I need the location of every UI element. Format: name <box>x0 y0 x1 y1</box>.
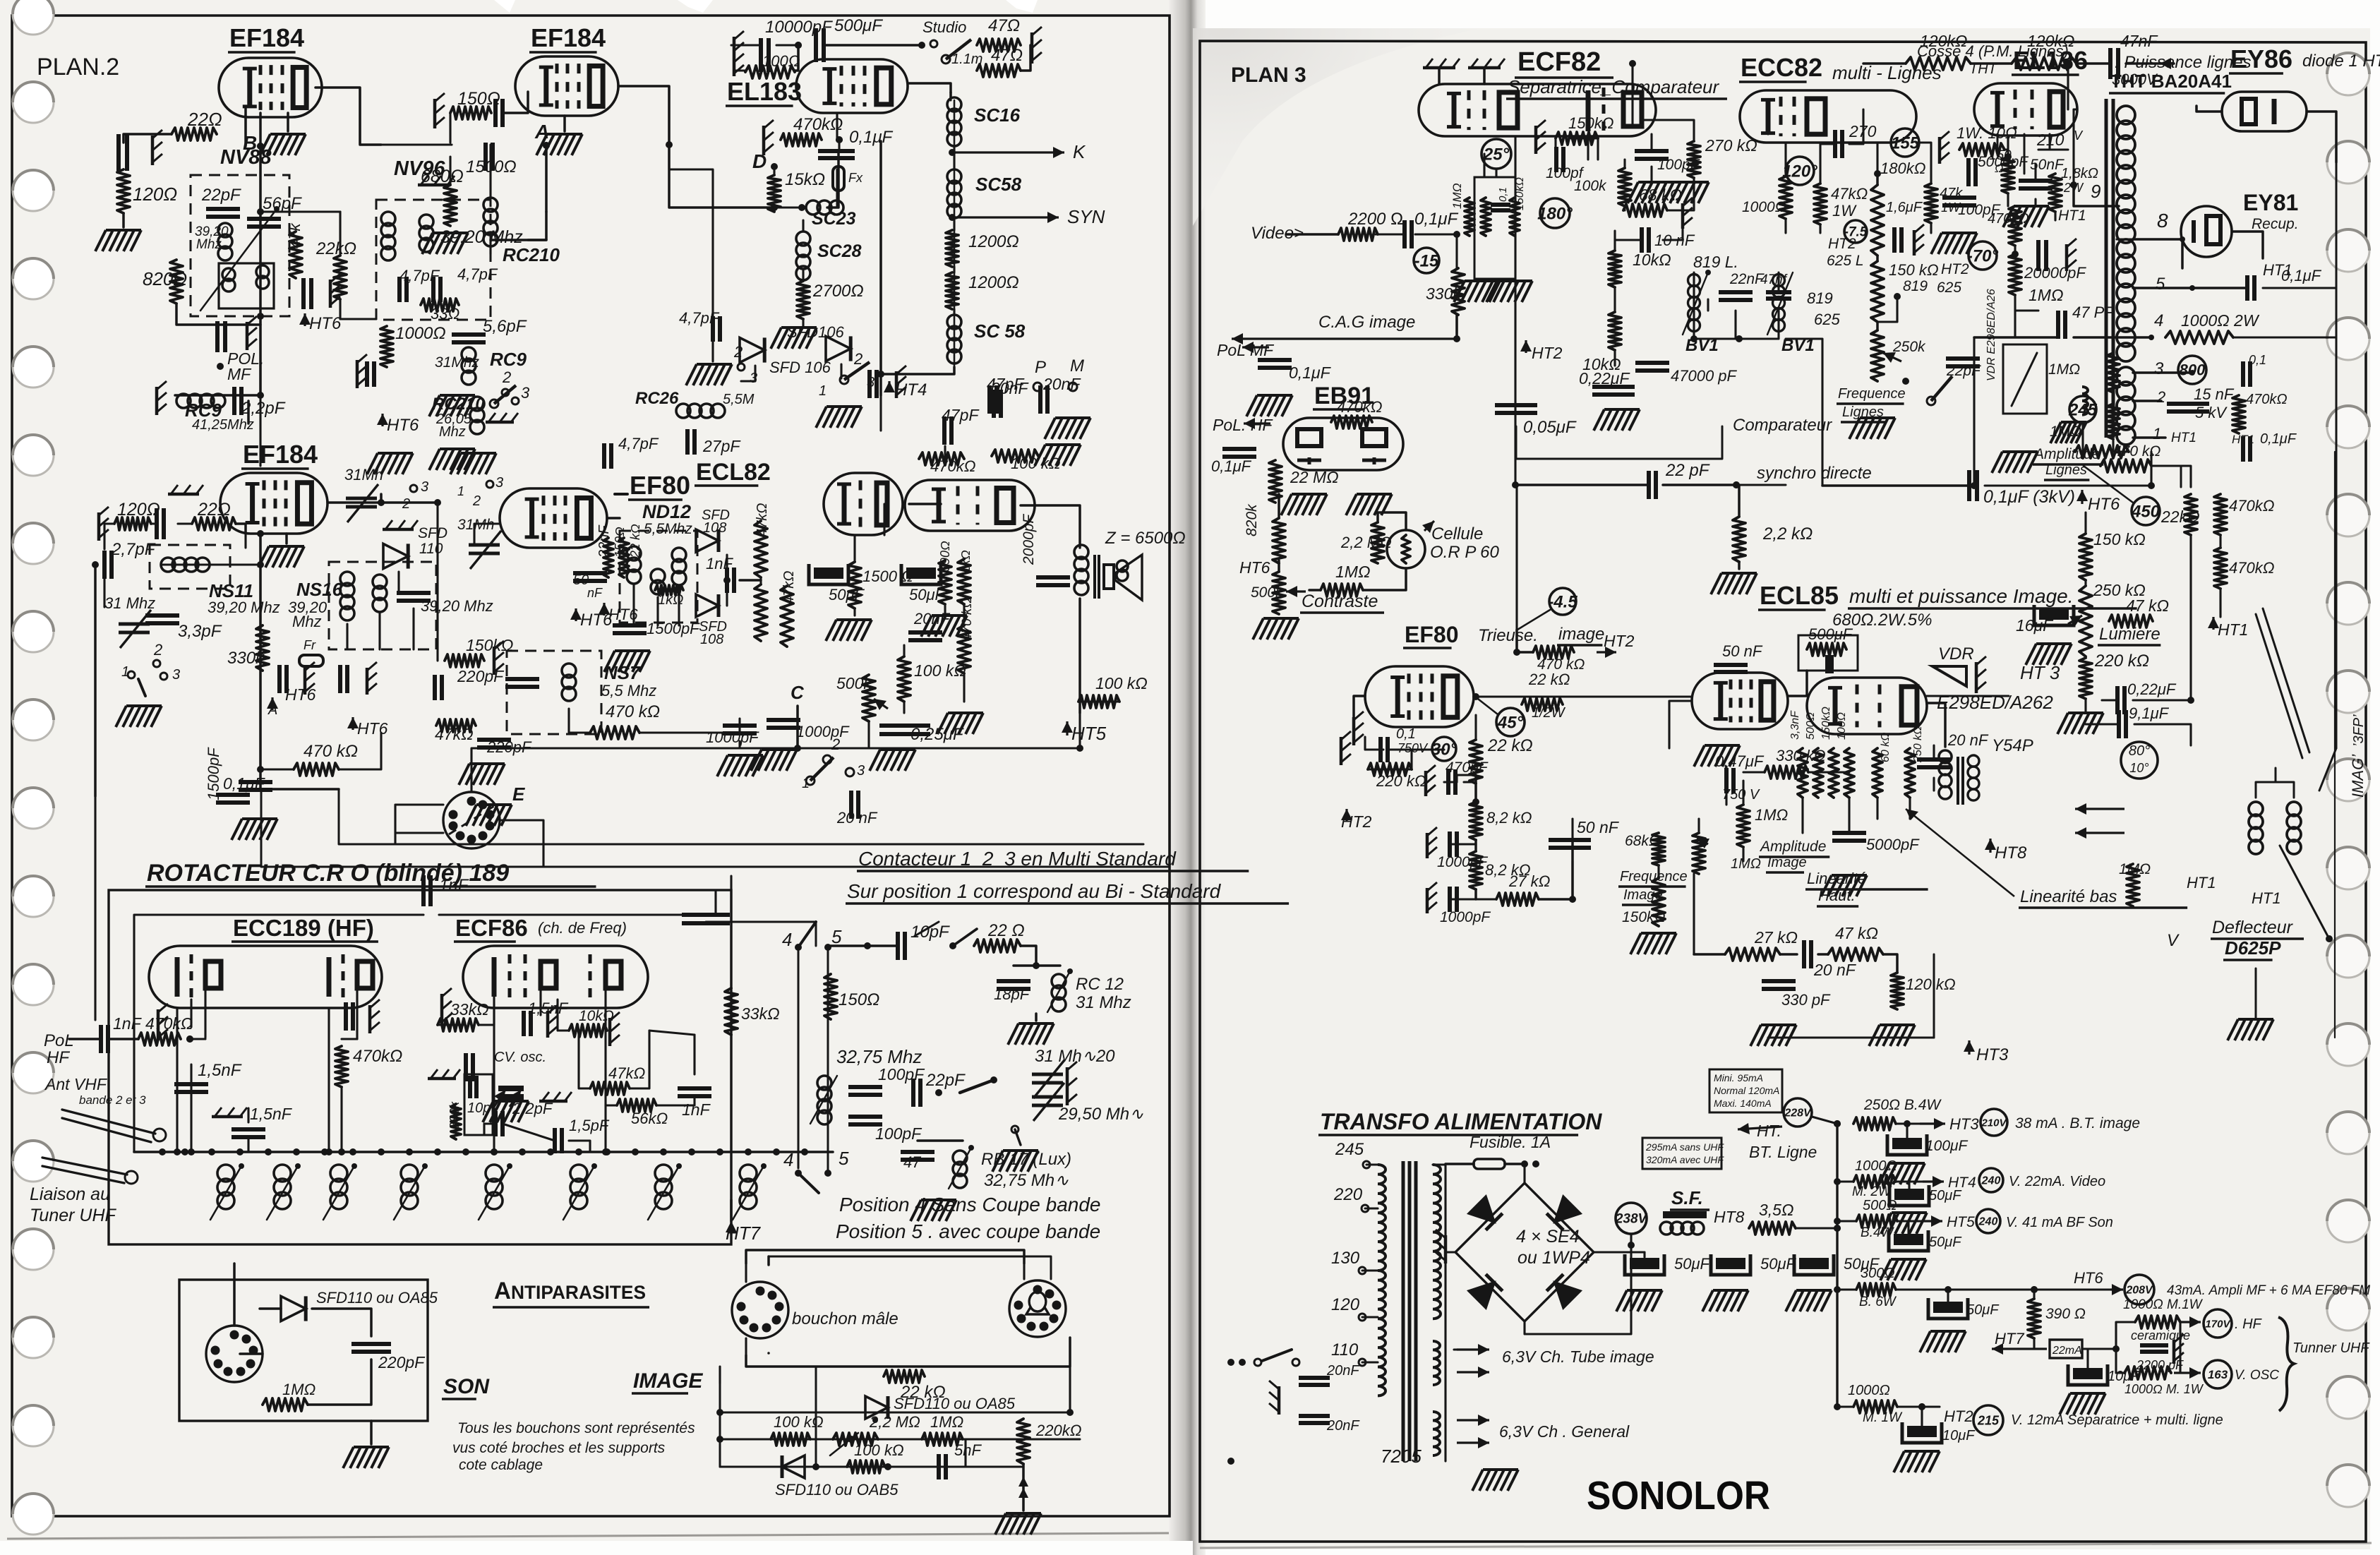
svg-text:20000pF: 20000pF <box>2024 264 2086 282</box>
res 27k mid <box>1725 928 1798 961</box>
wire run 223 <box>1571 819 1573 840</box>
svg-text:22nF: 22nF <box>1729 271 1765 287</box>
coil SC23 <box>806 200 856 229</box>
wire run 156 <box>1613 350 1616 366</box>
ground rc210 b <box>367 453 413 474</box>
res 1500 v <box>848 562 913 608</box>
svg-text:Lignes: Lignes <box>2045 462 2087 478</box>
wire defl down <box>2255 853 2256 1019</box>
wire run 143 <box>1495 169 1497 177</box>
res 60k rot <box>1873 733 1892 798</box>
res 2200 <box>1338 210 1404 241</box>
cap 22nF bv1 <box>1719 271 1765 300</box>
wire run 57 <box>412 608 414 649</box>
wire synchro <box>1515 484 1786 486</box>
hatch v8b <box>428 1069 460 1079</box>
circle 450 <box>2084 466 2160 525</box>
wire run 5 <box>244 114 246 134</box>
wire socket box <box>94 568 97 796</box>
coil NS7 <box>562 664 576 701</box>
tube V1 EF184 envelope <box>219 58 322 117</box>
cap 47nF top <box>2110 32 2158 88</box>
junction 2 <box>257 208 264 215</box>
wire run 13 <box>449 113 451 143</box>
svg-text:470kΩ: 470kΩ <box>2246 392 2288 407</box>
svg-text:D: D <box>752 150 767 172</box>
svg-text:SON: SON <box>443 1375 490 1398</box>
note bouchons 1 <box>457 1420 695 1436</box>
wire run 4 <box>340 299 376 319</box>
wire run 232 <box>1801 798 1803 833</box>
cap 1000pF a <box>706 726 759 746</box>
svg-text:50μF: 50μF <box>1966 1302 2000 1318</box>
res 470k d <box>590 726 639 739</box>
svg-text:SFD 106: SFD 106 <box>769 359 831 376</box>
row1 elcap <box>1879 1124 1969 1184</box>
wire run 115 <box>656 1095 695 1105</box>
switch lever 45 b <box>798 1173 819 1193</box>
wire b to nv96 <box>260 146 340 256</box>
wire run 246 <box>2179 1322 2181 1373</box>
label 63V b <box>1457 1415 1630 1448</box>
box 295mA <box>1642 1138 1724 1169</box>
resistor 150ohm <box>450 89 500 119</box>
cap 50nF p3 <box>1549 818 1620 848</box>
label Liaison <box>30 1184 117 1225</box>
wire 22mA down <box>2116 1349 2124 1373</box>
wire mid row <box>1694 954 1897 973</box>
coil nd12 a <box>627 546 641 584</box>
wire fx down <box>827 151 839 208</box>
wire run 103 <box>190 1064 192 1152</box>
wire run 75 <box>796 706 798 748</box>
wire run 192 <box>2112 392 2114 404</box>
wire run 161 <box>1767 117 1769 134</box>
wire v4 row <box>381 501 438 504</box>
wire run 218 <box>1464 781 1476 783</box>
label HT1 tap8 <box>2181 239 2184 268</box>
wire run 56 <box>378 613 380 649</box>
wire run 234 <box>1876 798 1878 819</box>
wire run 257 <box>1454 1348 1457 1350</box>
wire run 82 <box>944 604 946 616</box>
left page border frame <box>12 16 1170 1516</box>
wire A down <box>545 145 548 212</box>
ground rc12 <box>1008 1014 1054 1045</box>
wire top bus <box>1863 58 2174 69</box>
cap 1,5nF a <box>174 1061 242 1092</box>
wire run 23 <box>731 44 761 46</box>
svg-text:V. 41 mA BF Son: V. 41 mA BF Son <box>2006 1215 2113 1230</box>
svg-text:39,20 Mhz: 39,20 Mhz <box>208 599 280 616</box>
cap 5nF <box>939 1441 982 1479</box>
wire tap8 circle <box>2117 238 2182 240</box>
punch holes right edge <box>2327 53 2369 1507</box>
svg-text:47000 pF: 47000 pF <box>1671 367 1738 385</box>
wire run 93 <box>204 988 206 1038</box>
row2 label <box>2009 1174 2105 1189</box>
cap 20nF d <box>908 610 951 640</box>
elcap 500uF <box>1825 655 1834 673</box>
label HT8 sf <box>1714 1208 1745 1226</box>
svg-text:ECF86: ECF86 <box>455 915 528 941</box>
label 63V a <box>1457 1344 1654 1378</box>
wire run 30 <box>773 208 775 212</box>
svg-text:220 kΩ: 220 kΩ <box>2094 652 2149 671</box>
wire eb91 net <box>1279 494 1406 590</box>
cap 1nF pol <box>101 1014 143 1053</box>
res bank rot <box>1789 707 1854 798</box>
wire run 136 <box>1514 136 1516 485</box>
svg-text:M: M <box>1070 356 1084 376</box>
wire run 230 <box>1743 771 1765 773</box>
svg-text:3,3nF: 3,3nF <box>1789 710 1801 740</box>
label NS11 <box>208 580 280 616</box>
V7 sys2 cathode <box>327 957 332 997</box>
res 220k rot <box>1481 198 1491 236</box>
svg-text:SC 58: SC 58 <box>974 320 1026 342</box>
svg-text:120: 120 <box>1331 1295 1360 1314</box>
svg-text:HT2: HT2 <box>1941 261 1969 277</box>
svg-text:Ant VHF: Ant VHF <box>44 1075 108 1093</box>
wire run 76 <box>738 741 740 748</box>
res 470k el183 <box>781 115 843 146</box>
ground 1000a <box>717 755 763 776</box>
wire run 126 <box>500 820 543 867</box>
junction 19 <box>174 1148 181 1155</box>
wire image left col <box>719 1383 721 1467</box>
svg-text:29,50 Mh∿: 29,50 Mh∿ <box>1058 1105 1143 1124</box>
svg-text:Normal 120mA: Normal 120mA <box>1714 1085 1779 1096</box>
svg-text:3: 3 <box>2154 359 2164 378</box>
svg-text:20nF: 20nF <box>990 379 1029 397</box>
transfo header <box>1318 1109 1602 1135</box>
svg-text:330k: 330k <box>447 1101 462 1129</box>
resistor 120ohm <box>117 169 177 213</box>
svg-text:100pF: 100pF <box>875 1124 922 1143</box>
svg-text:155: 155 <box>1891 133 1920 152</box>
svg-text:10°: 10° <box>2129 761 2148 775</box>
wire run 106 <box>134 915 423 1152</box>
wire v2 grid down <box>528 212 546 240</box>
junction 23 <box>338 1148 345 1155</box>
wire run 117 <box>649 1031 695 1035</box>
circle 208V <box>2124 1275 2154 1304</box>
transfo sec HV winding <box>1433 1165 1441 1319</box>
THT tap 4 <box>2148 311 2163 340</box>
coil NV88 sec b <box>256 265 269 289</box>
wire run 88 <box>1078 713 1081 748</box>
circle 80 10 <box>2121 742 2158 779</box>
svg-text:470pF: 470pF <box>1446 760 1489 776</box>
wire run 180 <box>2005 148 2008 150</box>
svg-text:SFD110 ou OA85: SFD110 ou OA85 <box>894 1395 1016 1412</box>
res cluster box <box>1474 177 1515 279</box>
label 22nF etc <box>596 524 642 558</box>
res 33k v8 <box>438 1000 489 1031</box>
svg-text:(ch. de Freq): (ch. de Freq) <box>538 919 627 937</box>
arrows defl <box>2075 803 2124 839</box>
row2 res 1000 <box>1852 1158 1897 1199</box>
svg-text:220kΩ: 220kΩ <box>1035 1422 1081 1439</box>
res 100ohm <box>745 52 800 78</box>
bridge wires <box>1523 1164 1525 1183</box>
THT tap 5 <box>2133 275 2247 294</box>
svg-text:HT3: HT3 <box>1976 1045 2009 1064</box>
svg-text:56pF: 56pF <box>263 194 302 213</box>
elcap 50uF p3 <box>1786 1254 1880 1311</box>
ground 100pFb <box>1628 182 1709 203</box>
svg-text:9,1μF: 9,1μF <box>2129 704 2170 722</box>
junction 32 <box>2005 153 2012 160</box>
res 1000 M1W a <box>2123 1297 2204 1328</box>
wire run 54 <box>397 572 399 593</box>
res 150k v10 <box>1871 261 1939 322</box>
row4 label <box>2167 1283 2370 1298</box>
res 120k top b <box>2012 32 2077 70</box>
label freq lignes <box>1837 386 1906 422</box>
wire run 150 <box>1669 178 1694 210</box>
wire 5 to right <box>2247 267 2336 301</box>
row4 res 300 <box>1856 1266 1897 1309</box>
row5 elcap 10uF <box>2060 1349 2141 1415</box>
bus taps <box>159 1148 808 1155</box>
wire run 109 <box>493 997 495 1025</box>
svg-text:1,6μF: 1,6μF <box>1886 200 1923 215</box>
coil RC9b 31Mhz <box>435 347 527 385</box>
image loop bottom2 <box>769 1353 1024 1361</box>
svg-text:31 Mhz: 31 Mhz <box>104 594 155 612</box>
svg-text:Liaison au: Liaison au <box>30 1184 110 1204</box>
cap 50nF el <box>2019 157 2065 188</box>
svg-text:0,1μF: 0,1μF <box>849 128 894 147</box>
wire nv96 to v2 <box>491 239 546 241</box>
label synchro directe <box>1733 464 1872 488</box>
THT tap 1 <box>2133 425 2196 445</box>
bridge diamond <box>1455 1183 1594 1321</box>
box cv osc <box>464 1074 493 1135</box>
ground RC9 right <box>247 401 250 424</box>
wire comparateur <box>1516 426 1722 459</box>
wire deflect <box>2256 768 2294 798</box>
svg-text:470 kΩ: 470 kΩ <box>960 598 975 641</box>
wire run 48 <box>162 563 230 565</box>
deflecteur coils <box>2249 802 2301 854</box>
tube V13 EY86 header <box>2229 44 2380 73</box>
res 82k b <box>1470 851 1530 889</box>
label HT6 d <box>377 414 419 435</box>
elcap 50uF p2 <box>1702 1254 1797 1311</box>
res 1200 b <box>946 272 1019 309</box>
RC12 tank box <box>1014 962 1060 969</box>
THT tap 8 <box>2133 210 2185 242</box>
svg-text:EF184: EF184 <box>229 23 304 52</box>
wire V1 cathode down <box>244 107 247 146</box>
svg-text:VDR E298ED/A26: VDR E298ED/A26 <box>1985 289 1997 381</box>
label A node <box>534 121 550 149</box>
label ro directe <box>0 0 1 1</box>
wire bottom bus v4 <box>260 769 339 789</box>
wire run 118 <box>730 876 732 988</box>
diode SFD106 b <box>769 336 851 376</box>
svg-text:5000pF: 5000pF <box>1866 836 1920 853</box>
wire run 160 <box>1735 484 1737 486</box>
svg-text:EF80: EF80 <box>1405 622 1458 647</box>
svg-text:HT1: HT1 <box>2232 433 2254 446</box>
ECF82 subtitle <box>1506 76 1727 99</box>
svg-text:4,7pF: 4,7pF <box>457 265 498 283</box>
svg-text:110: 110 <box>1331 1340 1359 1359</box>
wire run 200 <box>2151 466 2191 487</box>
wire run 249 <box>1643 1252 1645 1257</box>
svg-text:RC210: RC210 <box>503 244 560 265</box>
wire run 176 <box>1739 311 1779 339</box>
coil NS11 <box>161 558 210 572</box>
svg-text:B. 6W: B. 6W <box>1859 1295 1897 1309</box>
cap 20nF m a <box>1299 1363 1360 1385</box>
wire run 102 <box>340 1087 342 1152</box>
label HT6 nd12 <box>599 603 638 623</box>
svg-text:47Ω: 47Ω <box>991 46 1023 65</box>
coil RC26 <box>635 389 755 418</box>
label 39,20Mhz NV96 <box>440 227 523 247</box>
hatch 50nf <box>2003 206 2049 227</box>
wire run 167 <box>1820 144 1835 184</box>
wire run 225 <box>1669 701 1692 748</box>
svg-text:320mA avec UHF: 320mA avec UHF <box>1646 1154 1724 1165</box>
svg-text:Linearité bas: Linearité bas <box>2020 887 2117 906</box>
res 470k ecl <box>919 452 975 475</box>
IMAGE header <box>632 1369 703 1393</box>
diode SFD108 b <box>696 594 727 647</box>
svg-text:Amplitude: Amplitude <box>1759 839 1826 855</box>
res 150k b <box>445 636 513 667</box>
label HT1 ey81 <box>2232 232 2292 279</box>
svg-text:HT6: HT6 <box>2088 495 2120 514</box>
wire run 69 <box>259 769 261 789</box>
node B <box>243 132 264 154</box>
svg-text:0,1μF: 0,1μF <box>1289 364 1332 382</box>
svg-text:S.F.: S.F. <box>1671 1187 1703 1208</box>
label amplitude image <box>1731 839 1829 872</box>
ground ecf82 b <box>1468 59 1505 84</box>
wire run 139 <box>1455 243 1458 268</box>
res 68k <box>1623 186 1693 229</box>
res small rot a <box>603 538 613 577</box>
wire run 80 <box>944 446 946 459</box>
label linearite haut <box>1805 870 1928 906</box>
row6 elcap <box>1894 1407 1976 1472</box>
wire run 131 <box>1069 1367 1071 1412</box>
label C node <box>791 682 805 703</box>
svg-text:HT1: HT1 <box>2252 889 2281 907</box>
cap 4,7pF b <box>433 265 498 302</box>
svg-text:1000pF: 1000pF <box>1440 909 1491 925</box>
wire run 46 <box>103 579 105 607</box>
res 47k mid <box>1828 924 1883 961</box>
row3 res 500 <box>1856 1198 1897 1240</box>
ground sfd <box>816 407 862 428</box>
wire run 89 <box>903 645 905 656</box>
svg-text:47 PF: 47 PF <box>2072 304 2115 321</box>
trim 31Mhz20 <box>1032 1047 1115 1098</box>
svg-text:Studio: Studio <box>922 18 966 36</box>
hatch bridge left <box>1436 1230 1455 1263</box>
hatch cv <box>483 1101 529 1122</box>
svg-text:22kΩ: 22kΩ <box>315 239 356 258</box>
wire run 61 <box>607 517 620 519</box>
svg-text:1000pF: 1000pF <box>796 723 850 740</box>
svg-text:120°: 120° <box>1782 162 1817 181</box>
label HT6 c <box>347 717 388 738</box>
svg-text:39,20 Mhz: 39,20 Mhz <box>421 597 493 615</box>
tube V11 envelope <box>1974 83 2077 136</box>
junction 22 <box>602 1148 609 1155</box>
svg-text:20nF: 20nF <box>1326 1363 1360 1379</box>
svg-text:100μF: 100μF <box>1925 1138 1969 1154</box>
wire run 10 <box>489 240 491 254</box>
wire mid to node <box>706 922 816 946</box>
cap 47pF ecl <box>942 406 980 445</box>
res 330k v9 <box>1426 268 1465 315</box>
cap 1500 + label <box>466 143 517 176</box>
wire run 250 <box>1366 1163 1378 1165</box>
svg-text:50μF: 50μF <box>1929 1235 1962 1250</box>
wire run 21 <box>797 45 799 71</box>
diode image 2 <box>775 1455 898 1499</box>
row2 arrow HT4 <box>1896 1175 1976 1191</box>
label deflecteur <box>2211 918 2304 960</box>
svg-text:vus coté broches et les: vus coté broches et les supports <box>452 1440 666 1456</box>
res 2,2M <box>1340 522 1392 563</box>
svg-text:20nF: 20nF <box>1326 1418 1360 1434</box>
wire box around <box>1694 874 1955 1047</box>
svg-text:1/2W: 1/2W <box>1532 705 1566 721</box>
svg-text:3,3pF: 3,3pF <box>178 622 222 641</box>
pot 250k <box>1871 330 1926 381</box>
resistor 22k <box>315 239 356 299</box>
wire run 235 <box>1909 798 1911 819</box>
svg-text:8,2 kΩ: 8,2 kΩ <box>1486 809 1532 827</box>
cap 01uF bottom <box>216 774 266 803</box>
wire run 135 <box>719 1367 721 1383</box>
wire run 166 <box>1849 109 1863 144</box>
svg-text:2700Ω: 2700Ω <box>812 282 864 301</box>
svg-text:3,5Ω: 3,5Ω <box>1759 1201 1793 1219</box>
svg-text:50μF: 50μF <box>1674 1255 1711 1273</box>
ground defl <box>2228 1019 2273 1040</box>
svg-text:390 Ω: 390 Ω <box>2045 1306 2086 1322</box>
svg-text:15 nF: 15 nF <box>2194 385 2235 403</box>
diode SFD106 a <box>740 323 844 363</box>
svg-text:C.A.G image: C.A.G image <box>1318 313 1415 332</box>
svg-text:HT6: HT6 <box>309 314 342 333</box>
wire right col top <box>949 92 952 97</box>
svg-text:Frequence: Frequence <box>1838 386 1906 402</box>
svg-text:ou 1WP4: ou 1WP4 <box>1517 1248 1590 1268</box>
wire run 165 <box>1876 143 1878 174</box>
node pol <box>186 1035 193 1043</box>
circle 800 <box>2178 356 2206 384</box>
svg-text:50 nF: 50 nF <box>1722 642 1763 660</box>
res 2,2k <box>1733 517 1813 562</box>
ground nv86 <box>686 364 732 385</box>
CRT diag lines <box>2256 608 2336 791</box>
wire pol right <box>69 1038 138 1040</box>
coil SC58 b <box>947 315 1026 364</box>
svg-text:EY86: EY86 <box>2230 44 2292 73</box>
wire run 228 <box>1742 781 1744 805</box>
